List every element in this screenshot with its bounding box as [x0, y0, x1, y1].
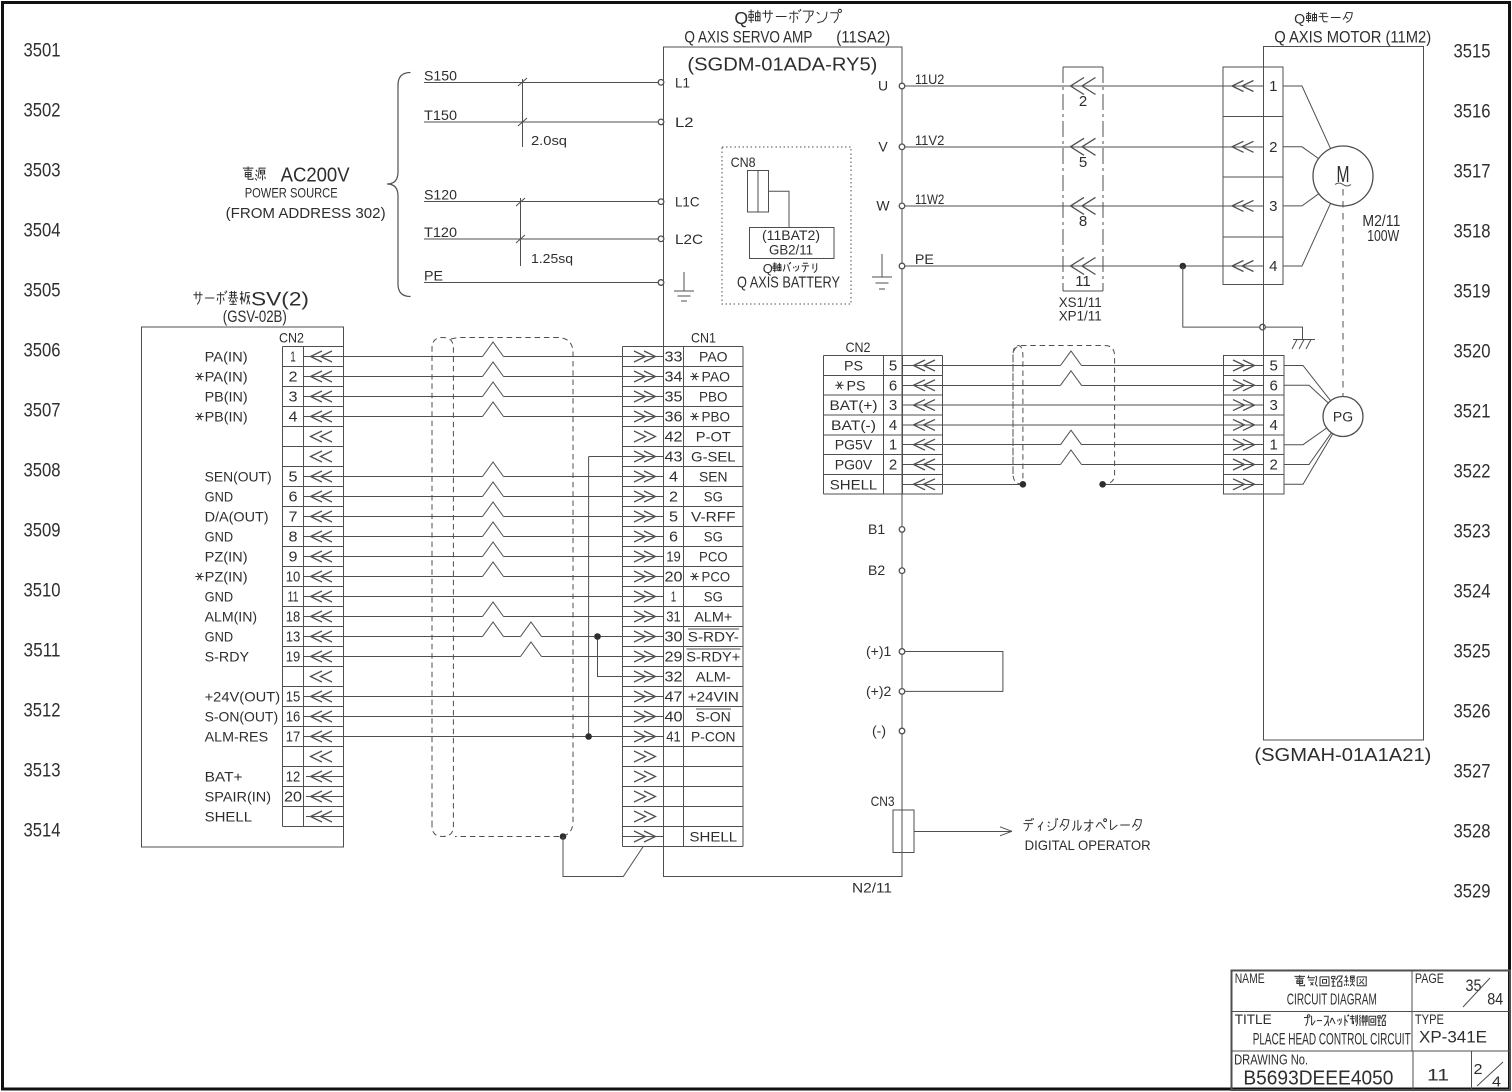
svg-text:34: 34	[665, 369, 683, 386]
svg-text:(FROM ADDRESS 302): (FROM ADDRESS 302)	[226, 205, 386, 222]
svg-text:N2/11: N2/11	[852, 880, 892, 896]
svg-text:TYPE: TYPE	[1415, 1012, 1444, 1027]
svg-text:B1: B1	[868, 521, 885, 537]
svg-text:L1C: L1C	[675, 194, 700, 210]
svg-text:3514: 3514	[24, 821, 61, 842]
svg-text:DRAWING No.: DRAWING No.	[1234, 1053, 1308, 1069]
svg-text:8: 8	[1079, 213, 1087, 230]
svg-text:S120: S120	[424, 187, 457, 203]
svg-text:3516: 3516	[1454, 102, 1491, 123]
svg-text:8: 8	[289, 529, 298, 546]
svg-text:XP-341E: XP-341E	[1419, 1028, 1487, 1047]
svg-text:2.0sq: 2.0sq	[531, 133, 567, 148]
svg-text:(11SA2): (11SA2)	[836, 29, 890, 47]
svg-text:SG: SG	[704, 489, 723, 505]
svg-text:35: 35	[1466, 977, 1482, 995]
svg-text:12: 12	[286, 769, 301, 786]
svg-text:PG0V: PG0V	[835, 457, 873, 473]
svg-text:BAT(-): BAT(-)	[831, 417, 876, 433]
svg-text:SHELL: SHELL	[690, 829, 738, 845]
svg-text:6: 6	[889, 377, 897, 394]
svg-text:Q: Q	[1294, 12, 1305, 28]
svg-text:40: 40	[665, 709, 683, 726]
svg-text:11U2: 11U2	[915, 71, 945, 87]
svg-text:+24V(OUT): +24V(OUT)	[205, 689, 281, 705]
svg-text:1.25sq: 1.25sq	[531, 251, 573, 266]
svg-text:P-OT: P-OT	[696, 429, 731, 445]
svg-text:(GSV-02B): (GSV-02B)	[223, 308, 287, 326]
svg-text:16: 16	[286, 709, 301, 726]
svg-text:V: V	[878, 138, 888, 154]
svg-text:2: 2	[889, 457, 897, 474]
svg-text:D/A(OUT): D/A(OUT)	[205, 509, 269, 525]
svg-text:3515: 3515	[1454, 42, 1491, 63]
svg-text:20: 20	[665, 569, 683, 586]
svg-text:4: 4	[1270, 417, 1278, 434]
svg-text:S-RDY+: S-RDY+	[686, 649, 740, 665]
svg-text:PS: PS	[847, 377, 866, 393]
svg-text:3511: 3511	[24, 641, 61, 662]
svg-text:GND: GND	[205, 489, 234, 505]
svg-text:4: 4	[1269, 258, 1277, 275]
svg-text:6: 6	[669, 529, 678, 546]
svg-text:DIGITAL OPERATOR: DIGITAL OPERATOR	[1025, 837, 1151, 853]
svg-text:1: 1	[671, 589, 677, 606]
svg-text:(-): (-)	[872, 723, 886, 739]
svg-text:S150: S150	[424, 67, 457, 83]
svg-text:3524: 3524	[1454, 582, 1491, 603]
svg-text:36: 36	[665, 409, 683, 426]
svg-text:W: W	[876, 197, 890, 213]
svg-text:(+)1: (+)1	[866, 643, 892, 659]
svg-text:3525: 3525	[1454, 642, 1491, 663]
svg-text:V-RFF: V-RFF	[691, 509, 736, 525]
svg-text:5: 5	[889, 358, 897, 375]
svg-text:PAGE: PAGE	[1415, 971, 1444, 986]
svg-text:3520: 3520	[1454, 342, 1491, 363]
svg-text:3: 3	[1270, 397, 1278, 414]
svg-text:6: 6	[1270, 377, 1278, 394]
svg-text:PA(IN): PA(IN)	[205, 349, 248, 365]
svg-text:BAT(+): BAT(+)	[830, 397, 878, 413]
svg-text:L2: L2	[675, 114, 694, 130]
svg-text:PLACE HEAD CONTROL CIRCUIT: PLACE HEAD CONTROL CIRCUIT	[1253, 1031, 1411, 1049]
svg-text:11: 11	[1075, 273, 1091, 290]
svg-text:ALM-: ALM-	[696, 669, 731, 685]
svg-text:2: 2	[289, 369, 298, 386]
svg-text:TITLE: TITLE	[1235, 1012, 1272, 1027]
svg-text:3501: 3501	[24, 41, 61, 62]
svg-text:3506: 3506	[24, 341, 61, 362]
svg-text:SHELL: SHELL	[830, 476, 878, 492]
svg-text:3507: 3507	[24, 401, 61, 422]
svg-text:47: 47	[665, 689, 683, 706]
svg-text:B5693DEEE4050: B5693DEEE4050	[1243, 1068, 1393, 1090]
svg-text:ALM(IN): ALM(IN)	[205, 609, 258, 625]
svg-text:4: 4	[669, 469, 678, 486]
svg-text:43: 43	[665, 449, 683, 466]
svg-text:1: 1	[290, 349, 296, 366]
svg-text:SHELL: SHELL	[205, 809, 253, 825]
svg-text:L2C: L2C	[675, 231, 703, 247]
svg-text:SPAIR(IN): SPAIR(IN)	[205, 789, 272, 805]
svg-text:6: 6	[289, 489, 298, 506]
svg-text:PB(IN): PB(IN)	[205, 389, 248, 405]
svg-text:11W2: 11W2	[915, 191, 945, 207]
svg-text:3527: 3527	[1454, 762, 1491, 783]
svg-text:SG: SG	[704, 589, 723, 605]
svg-text:20: 20	[284, 789, 302, 806]
svg-text:31: 31	[666, 609, 681, 626]
svg-text:NAME: NAME	[1235, 971, 1265, 986]
svg-text:(SGMAH-01A1A21): (SGMAH-01A1A21)	[1254, 745, 1431, 765]
svg-text:3517: 3517	[1454, 162, 1491, 183]
svg-text:100W: 100W	[1367, 228, 1399, 245]
svg-text:S-ON: S-ON	[696, 709, 731, 725]
svg-text:PS: PS	[844, 358, 863, 374]
svg-text:42: 42	[665, 429, 683, 446]
svg-text:30: 30	[665, 629, 683, 646]
svg-text:(+)2: (+)2	[866, 683, 892, 699]
svg-text:2: 2	[1270, 457, 1278, 474]
svg-text:3519: 3519	[1454, 282, 1491, 303]
svg-text:PCO: PCO	[699, 549, 728, 565]
svg-text:10: 10	[286, 569, 301, 586]
svg-text:4: 4	[1492, 1074, 1501, 1091]
svg-text:11: 11	[1427, 1066, 1449, 1085]
svg-text:11V2: 11V2	[915, 132, 945, 148]
svg-text:Q AXIS SERVO AMP: Q AXIS SERVO AMP	[684, 29, 812, 47]
svg-text:G-SEL: G-SEL	[691, 449, 736, 465]
svg-text:3528: 3528	[1454, 822, 1491, 843]
svg-text:3513: 3513	[24, 761, 61, 782]
svg-text:GB2/11: GB2/11	[769, 242, 813, 258]
svg-text:S-ON(OUT): S-ON(OUT)	[205, 709, 279, 725]
svg-text:3526: 3526	[1454, 702, 1491, 723]
svg-text:S-RDY: S-RDY	[205, 649, 250, 665]
svg-text:PZ(IN): PZ(IN)	[205, 569, 248, 585]
svg-text:2: 2	[1474, 1061, 1483, 1078]
svg-text:2: 2	[669, 489, 678, 506]
svg-text:3: 3	[889, 397, 897, 414]
svg-text:3522: 3522	[1454, 462, 1491, 483]
svg-text:3512: 3512	[24, 701, 61, 722]
svg-text:3502: 3502	[24, 101, 61, 122]
svg-text:3509: 3509	[24, 521, 61, 542]
svg-text:SEN(OUT): SEN(OUT)	[205, 469, 272, 485]
svg-text:BAT+: BAT+	[205, 769, 243, 785]
svg-text:AC200V: AC200V	[281, 165, 351, 187]
svg-text:CN2: CN2	[846, 339, 871, 355]
svg-text:PBO: PBO	[699, 389, 728, 405]
svg-text:3521: 3521	[1454, 402, 1491, 423]
svg-text:CIRCUIT DIAGRAM: CIRCUIT DIAGRAM	[1287, 992, 1377, 1009]
svg-text:19: 19	[666, 549, 681, 566]
svg-text:4: 4	[889, 417, 897, 434]
svg-text:ALM-RES: ALM-RES	[205, 729, 269, 745]
svg-text:PG: PG	[1333, 409, 1353, 425]
svg-text:35: 35	[665, 389, 683, 406]
svg-text:1: 1	[1269, 78, 1277, 95]
svg-text:SG: SG	[704, 529, 723, 545]
svg-text:PBO: PBO	[702, 409, 731, 425]
svg-text:T120: T120	[424, 224, 457, 240]
svg-text:CN2: CN2	[279, 330, 304, 346]
svg-text:PE: PE	[915, 251, 934, 267]
svg-text:3: 3	[1269, 198, 1277, 215]
svg-text:32: 32	[665, 669, 683, 686]
svg-text:9: 9	[289, 549, 298, 566]
svg-text:ALM+: ALM+	[694, 609, 732, 625]
svg-text:PG5V: PG5V	[835, 437, 873, 453]
svg-text:PAO: PAO	[702, 369, 731, 385]
svg-text:4: 4	[289, 409, 298, 426]
svg-text:5: 5	[1270, 358, 1278, 375]
svg-text:B2: B2	[868, 562, 885, 578]
svg-text:PA(IN): PA(IN)	[205, 369, 248, 385]
svg-text:2: 2	[1269, 139, 1277, 156]
svg-text:33: 33	[665, 349, 683, 366]
svg-text:18: 18	[286, 609, 301, 626]
svg-text:3508: 3508	[24, 461, 61, 482]
svg-text:XP1/11: XP1/11	[1059, 308, 1102, 324]
svg-text:7: 7	[289, 509, 298, 526]
svg-text:2: 2	[1079, 93, 1087, 110]
svg-text:29: 29	[665, 649, 683, 666]
svg-text:S-RDY-: S-RDY-	[688, 629, 739, 645]
svg-text:L1: L1	[675, 74, 690, 90]
svg-text:5: 5	[289, 469, 298, 486]
svg-text:17: 17	[286, 729, 301, 746]
svg-text:5: 5	[669, 509, 678, 526]
svg-text:3: 3	[289, 389, 298, 406]
svg-text:13: 13	[286, 629, 301, 646]
svg-text:SEN: SEN	[699, 469, 728, 485]
svg-text:PAO: PAO	[699, 349, 728, 365]
svg-text:3529: 3529	[1454, 882, 1491, 903]
svg-text:5: 5	[1079, 154, 1087, 171]
svg-text:CN1: CN1	[691, 330, 716, 346]
svg-text:3504: 3504	[24, 221, 61, 242]
svg-text:GND: GND	[205, 629, 234, 645]
svg-text:3523: 3523	[1454, 522, 1491, 543]
svg-text:PCO: PCO	[702, 569, 731, 585]
svg-text:PZ(IN): PZ(IN)	[205, 549, 248, 565]
svg-text:1: 1	[889, 437, 897, 454]
svg-text:41: 41	[666, 729, 681, 746]
svg-text:19: 19	[286, 649, 301, 666]
svg-text:15: 15	[286, 689, 301, 706]
svg-text:PE: PE	[424, 268, 443, 284]
svg-text:3503: 3503	[24, 161, 61, 182]
svg-text:T150: T150	[424, 107, 457, 123]
svg-text:+24VIN: +24VIN	[688, 689, 739, 705]
svg-text:PB(IN): PB(IN)	[205, 409, 248, 425]
svg-text:GND: GND	[205, 589, 234, 605]
svg-text:3505: 3505	[24, 281, 61, 302]
svg-text:Q AXIS MOTOR (11M2): Q AXIS MOTOR (11M2)	[1274, 29, 1431, 47]
svg-text:11: 11	[288, 589, 299, 606]
svg-text:3518: 3518	[1454, 222, 1491, 243]
svg-text:3510: 3510	[24, 581, 61, 602]
svg-text:GND: GND	[205, 529, 234, 545]
svg-text:CN3: CN3	[871, 793, 895, 809]
svg-text:POWER SOURCE: POWER SOURCE	[245, 185, 338, 201]
svg-text:Q AXIS BATTERY: Q AXIS BATTERY	[737, 275, 840, 292]
svg-text:CN8: CN8	[731, 154, 756, 170]
svg-text:P-CON: P-CON	[691, 729, 736, 745]
svg-text:U: U	[878, 78, 888, 94]
svg-text:Q: Q	[734, 8, 748, 28]
svg-text:84: 84	[1487, 991, 1503, 1009]
svg-text:(SGDM-01ADA-RY5): (SGDM-01ADA-RY5)	[687, 54, 877, 75]
svg-text:1: 1	[1270, 437, 1278, 454]
